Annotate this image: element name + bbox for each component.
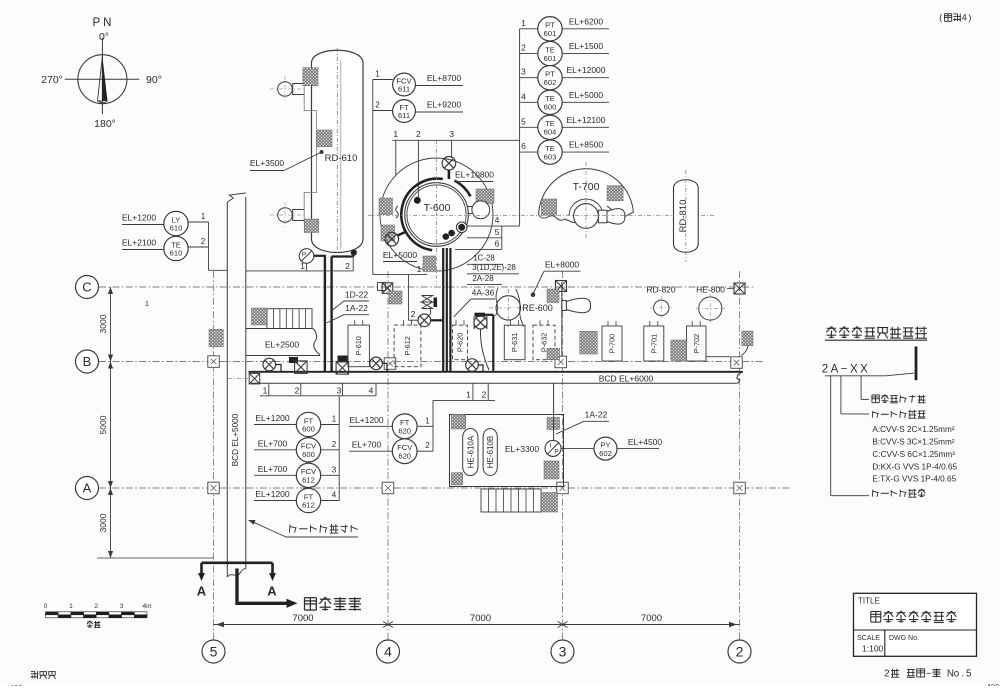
svg-text:P-620: P-620 — [456, 333, 465, 352]
svg-text:2: 2 — [345, 261, 350, 271]
svg-text:1: 1 — [69, 603, 73, 610]
svg-text:C:CVV-S 6C×1.25mm²: C:CVV-S 6C×1.25mm² — [872, 450, 955, 459]
svg-text:4m: 4m — [142, 603, 151, 610]
svg-text:EL+700: EL+700 — [258, 438, 288, 448]
svg-text:EL+1500: EL+1500 — [569, 41, 604, 51]
svg-text:1: 1 — [332, 415, 337, 424]
svg-text:1: 1 — [145, 301, 149, 308]
svg-text:2: 2 — [295, 386, 300, 396]
svg-text:P-702: P-702 — [692, 334, 701, 353]
svg-text:2: 2 — [884, 668, 889, 679]
svg-text:612: 612 — [302, 501, 315, 510]
svg-text:3: 3 — [559, 644, 567, 660]
svg-text:EL+8500: EL+8500 — [569, 140, 604, 150]
svg-text:T-600: T-600 — [424, 202, 451, 214]
svg-text:EL+1200: EL+1200 — [122, 213, 157, 223]
svg-text:E:TX-G VVS 1P-4/0.65: E:TX-G VVS 1P-4/0.65 — [872, 475, 956, 484]
svg-text:EL+2500: EL+2500 — [265, 340, 300, 350]
svg-text:6: 6 — [495, 238, 500, 248]
svg-text:EL+5000: EL+5000 — [569, 90, 604, 100]
svg-text:EL+6200: EL+6200 — [569, 16, 604, 26]
svg-text:P N: P N — [93, 17, 112, 29]
svg-text:I: I — [550, 443, 552, 450]
svg-text:D:KX-G VVS 1P-4/0.65: D:KX-G VVS 1P-4/0.65 — [872, 462, 957, 471]
svg-text:7000: 7000 — [470, 613, 491, 624]
svg-text:601: 601 — [544, 29, 557, 38]
svg-text:3000: 3000 — [98, 314, 108, 333]
svg-text:RD-610: RD-610 — [325, 153, 358, 164]
svg-text:5000: 5000 — [98, 415, 108, 434]
svg-text:600: 600 — [302, 425, 315, 434]
svg-text:A: A — [197, 584, 207, 599]
svg-text:EL+12100: EL+12100 — [567, 115, 606, 125]
svg-text:C: C — [82, 280, 91, 295]
svg-text:4: 4 — [332, 491, 337, 500]
svg-text:611: 611 — [398, 85, 410, 94]
svg-text:4: 4 — [495, 215, 500, 225]
svg-text:602: 602 — [599, 449, 612, 458]
svg-text:): ) — [968, 13, 971, 23]
svg-text:3: 3 — [337, 386, 342, 396]
svg-text:2: 2 — [425, 441, 430, 450]
svg-text:1: 1 — [521, 18, 526, 28]
svg-text:EL+4500: EL+4500 — [628, 437, 663, 447]
svg-text:EL+12000: EL+12000 — [567, 65, 606, 75]
svg-text:600: 600 — [544, 103, 557, 112]
svg-text:1A-22: 1A-22 — [345, 303, 368, 313]
svg-text:620: 620 — [398, 427, 411, 436]
svg-text:6: 6 — [521, 141, 526, 151]
svg-text:(: ( — [939, 13, 942, 23]
svg-text:2: 2 — [411, 309, 416, 319]
svg-text:EL+700: EL+700 — [258, 464, 288, 474]
svg-text:3(1D,2E)-28: 3(1D,2E)-28 — [472, 263, 516, 272]
svg-text:P-700: P-700 — [608, 334, 617, 353]
svg-text:SCALE: SCALE — [857, 635, 880, 642]
svg-text:EL+1200: EL+1200 — [255, 413, 290, 423]
svg-text:2: 2 — [482, 390, 487, 400]
svg-text:1:100: 1:100 — [862, 644, 884, 654]
svg-text:RD-820: RD-820 — [646, 284, 676, 294]
svg-text:4: 4 — [369, 386, 374, 396]
svg-text:5: 5 — [521, 116, 526, 126]
svg-text:B: B — [83, 354, 92, 369]
svg-text:4: 4 — [521, 91, 526, 101]
svg-text:620: 620 — [398, 451, 411, 460]
svg-text:612: 612 — [302, 476, 315, 485]
svg-text:1: 1 — [263, 386, 268, 396]
svg-text:EL+8000: EL+8000 — [545, 259, 580, 269]
svg-text:1: 1 — [425, 416, 430, 425]
svg-text:1: 1 — [393, 129, 398, 139]
svg-text:2A−XX: 2A−XX — [822, 364, 871, 376]
svg-text:270°: 270° — [41, 74, 63, 86]
svg-text:2: 2 — [375, 101, 380, 110]
svg-text:602: 602 — [544, 78, 557, 87]
svg-text:P-631: P-631 — [510, 333, 519, 352]
svg-text:HE-610B: HE-610B — [486, 436, 495, 468]
svg-text:1C-28: 1C-28 — [473, 254, 495, 263]
svg-text:HE-610A: HE-610A — [466, 435, 475, 468]
svg-text:2: 2 — [94, 603, 98, 610]
svg-text:.: . — [961, 668, 964, 679]
svg-text:3: 3 — [332, 465, 337, 474]
svg-text:603: 603 — [544, 152, 557, 161]
svg-text:EL+8700: EL+8700 — [427, 73, 462, 83]
svg-text:P: P — [554, 449, 558, 456]
svg-text:7000: 7000 — [641, 613, 662, 624]
svg-text:TITLE: TITLE — [858, 597, 880, 606]
svg-text:1: 1 — [300, 261, 305, 271]
svg-text:2: 2 — [416, 129, 421, 139]
svg-text:EL+10800: EL+10800 — [455, 170, 494, 180]
svg-text:EL+9200: EL+9200 — [427, 100, 462, 110]
svg-text:EL+3500: EL+3500 — [250, 158, 285, 168]
svg-text:1: 1 — [375, 70, 380, 79]
svg-text:611: 611 — [398, 111, 410, 120]
svg-text:2A-28: 2A-28 — [472, 274, 494, 283]
svg-text:EL+3300: EL+3300 — [505, 444, 540, 454]
svg-text:EL+5000: EL+5000 — [383, 250, 418, 260]
svg-text:3: 3 — [521, 67, 526, 77]
svg-text:A:CVV-S 2C×1.25mm²: A:CVV-S 2C×1.25mm² — [872, 425, 954, 434]
svg-text:1: 1 — [466, 390, 471, 400]
svg-text:EL+2100: EL+2100 — [122, 238, 157, 248]
svg-text:A: A — [83, 481, 92, 496]
svg-text:5: 5 — [495, 227, 500, 237]
svg-text:P-610: P-610 — [354, 336, 363, 355]
svg-text:P-612: P-612 — [403, 336, 412, 355]
svg-text:2: 2 — [201, 237, 206, 246]
svg-text:A: A — [267, 584, 277, 599]
svg-text:P: P — [302, 252, 306, 259]
svg-text:3000: 3000 — [98, 513, 108, 532]
svg-text:0°: 0° — [99, 31, 109, 43]
svg-text:4: 4 — [384, 644, 392, 660]
svg-text:601: 601 — [544, 54, 557, 63]
svg-text:−: − — [926, 668, 932, 679]
svg-text:5: 5 — [210, 644, 218, 660]
svg-text:o: o — [954, 668, 960, 679]
svg-text:BCD EL+6000: BCD EL+6000 — [599, 374, 654, 384]
svg-text:4: 4 — [962, 13, 967, 23]
svg-text:BCD EL+5000: BCD EL+5000 — [231, 413, 240, 466]
svg-text:EL+1200: EL+1200 — [349, 415, 384, 425]
svg-text:7000: 7000 — [292, 613, 313, 624]
svg-text:EL+1200: EL+1200 — [255, 489, 290, 499]
svg-text:2: 2 — [521, 43, 526, 53]
svg-text:2: 2 — [736, 644, 744, 660]
svg-text:5: 5 — [966, 668, 972, 679]
svg-text:1: 1 — [201, 212, 206, 221]
svg-text:180°: 180° — [94, 118, 116, 130]
svg-text:90°: 90° — [146, 74, 162, 86]
svg-text:DWG No.: DWG No. — [889, 635, 919, 642]
svg-text:RD-810: RD-810 — [678, 200, 689, 233]
svg-text:3: 3 — [449, 129, 454, 139]
svg-text:1A-22: 1A-22 — [585, 410, 608, 420]
svg-text:3: 3 — [120, 603, 124, 610]
svg-text:P-701: P-701 — [649, 334, 658, 353]
svg-text:2: 2 — [332, 440, 337, 449]
svg-text:4A-36: 4A-36 — [472, 287, 495, 297]
svg-text:610: 610 — [170, 224, 183, 233]
svg-text:B:CVV-S 3C×1.25mm²: B:CVV-S 3C×1.25mm² — [872, 438, 954, 447]
svg-text:HE-800: HE-800 — [696, 284, 725, 294]
svg-text:600: 600 — [302, 450, 315, 459]
svg-text:610: 610 — [170, 249, 183, 258]
svg-text:EL+700: EL+700 — [352, 440, 382, 450]
svg-text:0: 0 — [44, 603, 48, 610]
svg-text:1D-22: 1D-22 — [345, 289, 368, 299]
svg-text:RE-600: RE-600 — [522, 303, 553, 313]
svg-text:604: 604 — [544, 128, 557, 137]
